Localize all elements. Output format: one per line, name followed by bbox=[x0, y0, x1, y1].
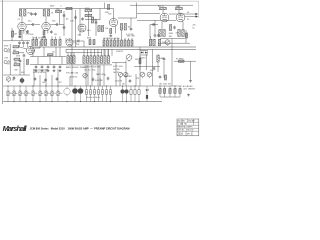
label rn lbl bbox=[135, 59, 138, 61]
capacitor C big 50u bbox=[64, 87, 70, 96]
svg-text:ISS DRN: ISS DRN bbox=[178, 121, 186, 123]
svg-text:10n: 10n bbox=[34, 93, 37, 95]
label jack lbl bbox=[4, 46, 9, 48]
wire bus mid 1 bbox=[30, 46, 196, 48]
svg-text:V5: V5 bbox=[187, 19, 189, 21]
resistor R41 bbox=[176, 6, 183, 10]
svg-text:470K: 470K bbox=[56, 9, 61, 11]
wire va5 bbox=[51, 37, 53, 40]
svg-text:0.022 68K: 0.022 68K bbox=[95, 80, 104, 82]
wire h-mid link bbox=[85, 19, 100, 21]
resistor Rc2 bbox=[86, 56, 88, 64]
svg-text:V2b: V2b bbox=[108, 14, 111, 16]
wire grid stop bbox=[19, 52, 24, 54]
label fill t3 bbox=[115, 81, 123, 83]
svg-text:0.02: 0.02 bbox=[26, 31, 30, 33]
wire vd2 bbox=[107, 38, 109, 40]
label k lbl b bbox=[54, 34, 57, 36]
label lbl2 bbox=[78, 35, 82, 37]
wire vb1 bbox=[67, 53, 69, 56]
triode V1b bbox=[42, 22, 50, 30]
wire V1b plate drop bbox=[45, 16, 47, 22]
wire cc1w bbox=[19, 45, 21, 47]
svg-text:16u: 16u bbox=[21, 93, 24, 95]
svg-text:470K: 470K bbox=[85, 8, 90, 10]
wire vconn10 bbox=[152, 60, 154, 86]
svg-text:470K: 470K bbox=[26, 33, 31, 35]
wire vconn8 bbox=[125, 60, 127, 86]
resistor R30 bbox=[120, 24, 122, 31]
resistor Ra4 bbox=[44, 39, 46, 45]
label fill t2 bbox=[95, 80, 104, 82]
wire vd3 bbox=[110, 38, 112, 40]
triode V3a bbox=[160, 13, 169, 22]
capacitor Ci7 bbox=[109, 86, 111, 102]
diode D1 bbox=[141, 51, 143, 53]
resistor R24 bbox=[101, 26, 109, 32]
resistor Rh1 bbox=[159, 86, 161, 97]
wire ps left drop2 bbox=[162, 10, 164, 13]
svg-text:V4: V4 bbox=[187, 12, 189, 14]
wire v2a up l bbox=[65, 38, 67, 42]
svg-text:0.022 470K: 0.022 470K bbox=[113, 66, 123, 68]
resistor Rc7 bbox=[104, 56, 106, 64]
potentiometer VR9 bbox=[118, 72, 122, 78]
wire ve2 bbox=[107, 49, 109, 56]
wire feed a bbox=[137, 13, 160, 15]
capacitor Cb2 bbox=[41, 65, 44, 69]
label fill t4 bbox=[122, 84, 125, 86]
svg-text:10n: 10n bbox=[66, 19, 69, 21]
label edge lbl2 bbox=[193, 28, 195, 30]
label sw labels3 bbox=[113, 72, 119, 74]
wire vconn2 bbox=[45, 69, 47, 86]
capacitor Cleft1 bbox=[19, 59, 22, 63]
svg-text:8u: 8u bbox=[104, 75, 106, 77]
wire V2b plate bbox=[113, 9, 115, 19]
capacitor Ch5 10n bbox=[32, 86, 37, 102]
wire V1a plate drop bbox=[21, 16, 23, 22]
capacitor C32 bbox=[154, 34, 157, 38]
resistor Rd2 bbox=[107, 40, 109, 46]
wire cc3w bbox=[27, 45, 29, 47]
resistor Ra1 bbox=[32, 39, 34, 45]
wire v75 bbox=[75, 10, 77, 47]
wire left col bbox=[23, 58, 25, 75]
resistor R3 bbox=[13, 50, 19, 54]
wire right low link bbox=[160, 96, 180, 98]
wire vd9 bbox=[131, 38, 133, 40]
label jack lbl2 bbox=[4, 58, 8, 60]
ground gnd Cb3 bbox=[47, 69, 50, 72]
label left lbl bbox=[15, 69, 19, 71]
capacitor Cb3 bbox=[47, 65, 50, 69]
capacitor C4 bbox=[34, 12, 37, 16]
capacitor Cn2 bbox=[159, 75, 162, 79]
wire v22 up bbox=[21, 31, 23, 41]
wire bus input row bbox=[3, 40, 30, 42]
label V1b label bbox=[52, 20, 55, 22]
wire v72 bbox=[71, 9, 73, 48]
capacitor C6 bypass bbox=[26, 30, 29, 34]
capacitor Ch3 16u bbox=[19, 86, 24, 102]
capacitor Ck3 bbox=[138, 86, 140, 102]
wire vd5 bbox=[117, 38, 119, 40]
ground right gnd bbox=[187, 94, 190, 97]
wire link right bbox=[59, 24, 64, 26]
svg-text:JCM 800 Series Model 2210: JCM 800 Series Model 2210 100W BASS AMP … bbox=[30, 127, 130, 131]
wire v136 top bbox=[136, 3, 138, 19]
label mk lbl bbox=[31, 51, 36, 53]
svg-text:FX SEND: FX SEND bbox=[176, 58, 184, 60]
capacitor C6b bypass bbox=[50, 30, 53, 34]
wire V1b out bbox=[50, 24, 56, 26]
svg-text:8u: 8u bbox=[15, 93, 17, 95]
svg-text:SHT 1: SHT 1 bbox=[187, 133, 192, 135]
potentiometer VR9b bbox=[124, 72, 128, 78]
resistor Ra6 bbox=[54, 39, 56, 45]
capacitor Cb4 bbox=[53, 65, 56, 69]
svg-text:MASTER: MASTER bbox=[124, 75, 132, 78]
ground V2b gnd bbox=[109, 34, 112, 37]
resistor R4b bbox=[14, 62, 20, 66]
svg-text:470R: 470R bbox=[169, 33, 174, 35]
wire vconn6 bbox=[99, 65, 101, 86]
resistor Rh3 bbox=[169, 86, 171, 97]
label rb lbl bbox=[87, 38, 92, 40]
resistor R47 bbox=[186, 33, 188, 38]
label eq vals2 bbox=[84, 69, 95, 71]
capacitor Ci3 bbox=[93, 86, 95, 102]
wire h into V2b bbox=[118, 17, 137, 19]
resistor Rb5 bbox=[93, 39, 95, 44]
svg-text:1K5 220K 47K: 1K5 220K 47K bbox=[159, 83, 172, 85]
label vr1 lbl bbox=[12, 80, 15, 82]
resistor Rc4 bbox=[93, 56, 95, 64]
label rn lbl2 bbox=[150, 70, 153, 72]
resistor R43 bbox=[163, 30, 165, 37]
capacitor Cj2 bbox=[124, 86, 128, 102]
wire vc8 bbox=[108, 49, 110, 56]
label k lbl bbox=[30, 34, 33, 36]
wire vc4 bbox=[94, 49, 96, 56]
wire V1a out bbox=[26, 24, 32, 26]
svg-text:22n: 22n bbox=[52, 52, 55, 54]
svg-text:4K7: 4K7 bbox=[59, 82, 62, 84]
resistor R5 220K bbox=[19, 10, 21, 17]
wire ps feed v bbox=[149, 25, 151, 39]
triode V3b bbox=[176, 13, 185, 22]
ground gnd Cb2 bbox=[41, 69, 44, 72]
arrow out a bbox=[196, 13, 199, 15]
capacitor Ci5 bbox=[101, 86, 103, 102]
label notes rt2 bbox=[183, 88, 196, 91]
resistor R22 bbox=[91, 17, 98, 23]
wire v146 down bbox=[145, 54, 147, 70]
resistor Rc3 bbox=[90, 56, 92, 64]
wire ps down bbox=[171, 39, 173, 48]
capacitor Ch2 8u bbox=[13, 86, 17, 102]
wire v140 mid bbox=[139, 56, 141, 70]
capacitor Cn1 bbox=[153, 67, 156, 71]
label rd low lbl bbox=[116, 51, 123, 53]
wire va3 bbox=[41, 37, 43, 40]
wire vk2 bbox=[59, 47, 61, 57]
label band lbl1 bbox=[66, 73, 78, 75]
wire vb3 bbox=[73, 53, 75, 56]
wire vf2 bbox=[51, 75, 53, 86]
wire vc1 bbox=[83, 49, 85, 56]
wire bus mid 1b bbox=[66, 48, 196, 50]
resistor Rf1 bbox=[149, 39, 151, 46]
wire ps join low bbox=[158, 42, 190, 44]
wire vd1 bbox=[103, 38, 105, 40]
svg-text:8u: 8u bbox=[193, 28, 195, 30]
wire ps join bbox=[160, 38, 185, 40]
capacitor Cj1 bbox=[120, 86, 124, 102]
triode V1a bbox=[18, 22, 26, 30]
svg-text:16u: 16u bbox=[47, 93, 50, 95]
svg-text:100K: 100K bbox=[176, 6, 181, 8]
wire eqdrop4 bbox=[103, 65, 105, 86]
wire v80 bbox=[79, 9, 81, 37]
wire bus mid 2 bbox=[30, 56, 66, 58]
svg-text:0.68: 0.68 bbox=[70, 21, 74, 23]
potentiometer VR3 bbox=[165, 40, 170, 46]
label lf lbl2 bbox=[59, 82, 62, 84]
wire eqdrop1 bbox=[85, 65, 87, 86]
capacitor C31 tail bbox=[173, 26, 176, 30]
resistor Rmid bus bbox=[47, 54, 53, 56]
ground gnd Cb5 bbox=[59, 69, 62, 72]
capacitor Ch6 8u bbox=[39, 86, 43, 102]
capacitor Ci4 bbox=[97, 86, 99, 102]
capacitor C2 25u bbox=[20, 77, 24, 84]
label val75 bbox=[70, 21, 74, 23]
wire vc7 bbox=[104, 49, 106, 56]
resistor Rd4 bbox=[114, 40, 116, 46]
label val131 bbox=[126, 34, 134, 36]
capacitor C30 bbox=[152, 23, 156, 26]
title block bbox=[177, 119, 199, 136]
resistor Rn2 bbox=[165, 75, 167, 80]
junction dots bus2 bbox=[14, 101, 140, 102]
wire eqdrop3 bbox=[97, 65, 99, 86]
label tail lbl bbox=[176, 33, 180, 35]
wire v64 bbox=[63, 11, 65, 36]
resistor R25 bbox=[108, 4, 110, 9]
wire ps feed bbox=[150, 24, 158, 26]
resistor Rd3 bbox=[110, 40, 112, 46]
wire c13 on bbox=[81, 40, 85, 42]
wire V2b k drop bbox=[114, 27, 116, 34]
label band lbl2 bbox=[96, 73, 105, 76]
triode V1a in bbox=[27, 47, 35, 55]
capacitor Cf1 bbox=[34, 77, 37, 81]
resistor Rd6 bbox=[121, 40, 123, 46]
svg-text:0.1: 0.1 bbox=[53, 93, 55, 95]
wire vd7 bbox=[124, 38, 126, 40]
label row a vals bbox=[33, 37, 46, 39]
wire vconn5 bbox=[87, 65, 89, 86]
resistor Rd1 bbox=[103, 40, 105, 46]
resistor Rf2 bbox=[153, 39, 155, 46]
svg-text:47p: 47p bbox=[33, 14, 36, 16]
label eq labels bbox=[66, 66, 87, 69]
capacitor Cm1 bbox=[92, 78, 95, 82]
resistor R20 bbox=[85, 8, 92, 11]
wire fx h bbox=[174, 60, 196, 62]
resistor Rb4 bbox=[89, 39, 91, 44]
resistor R44 bbox=[178, 30, 180, 37]
label vr45 lbl bbox=[136, 78, 140, 80]
svg-text:470K 22n 560K: 470K 22n 560K bbox=[33, 37, 46, 39]
wire vj5 bbox=[55, 47, 57, 57]
resistor R1 1M bbox=[12, 31, 18, 37]
resistor R32 bbox=[110, 28, 112, 33]
svg-text:32u: 32u bbox=[9, 93, 12, 95]
wire v88 bbox=[87, 12, 89, 36]
wire va1 bbox=[32, 37, 34, 40]
wire vconn11 bbox=[171, 47, 173, 86]
resistor Rn1 bbox=[139, 58, 141, 63]
label values row A bbox=[33, 69, 49, 71]
svg-text:1 JCM BK: 1 JCM BK bbox=[178, 124, 188, 126]
wire v96 down bbox=[95, 20, 97, 37]
label sw labels bbox=[113, 66, 123, 68]
capacitor Ch8 0.1 bbox=[51, 86, 56, 102]
capacitor Cf2 bbox=[44, 78, 47, 82]
label dio lbl bbox=[140, 58, 146, 60]
wire cc2w bbox=[23, 45, 25, 47]
svg-text:C2: C2 bbox=[18, 19, 20, 21]
wire bus jog v bbox=[65, 49, 67, 52]
label sw labels2 bbox=[113, 69, 120, 71]
diode D3 bbox=[146, 89, 148, 91]
wire vconn9 bbox=[139, 56, 141, 86]
wire vm2 bbox=[99, 78, 101, 86]
input jack J1 high bbox=[4, 48, 10, 52]
wire vj1 bbox=[37, 57, 39, 65]
wire ve1 bbox=[103, 49, 105, 56]
capacitor Ch4 32u bbox=[25, 86, 30, 102]
capacitor Cc2 bbox=[22, 41, 25, 45]
label ci vals bbox=[86, 97, 100, 99]
svg-text:22n: 22n bbox=[18, 37, 21, 39]
triode V2a mid bbox=[66, 39, 73, 46]
svg-text:MARSHALL AMPS: MARSHALL AMPS bbox=[178, 126, 194, 129]
potentiometer VR6 bbox=[72, 86, 78, 102]
wire fx v bbox=[190, 61, 192, 79]
capacitor Ch9 32u bbox=[57, 86, 62, 102]
label B+ label2 bbox=[61, 6, 63, 8]
capacitor C1 bbox=[23, 54, 26, 58]
Marshall logo bbox=[3, 124, 28, 133]
resistor R45 bbox=[182, 30, 184, 37]
capacitor Cb5 bbox=[59, 65, 62, 69]
label B+ label bbox=[50, 6, 55, 8]
resistor Rd7 bbox=[124, 40, 126, 46]
ground gnd Cb1 bbox=[35, 69, 38, 72]
svg-text:2210: 2210 bbox=[178, 133, 184, 136]
wire vf up bbox=[150, 37, 152, 40]
capacitor Ci2 bbox=[89, 86, 91, 102]
wire bus mid 1c bbox=[66, 52, 102, 54]
label row d vals bbox=[103, 38, 120, 40]
resistor Rc1 bbox=[83, 56, 85, 64]
capacitor C9b bbox=[74, 16, 77, 20]
wire vm1 bbox=[69, 76, 71, 86]
resistor R40 bbox=[158, 6, 166, 10]
wire v158 low bbox=[157, 62, 159, 72]
capacitor Cm2 bbox=[107, 77, 110, 81]
label lf lbl bbox=[42, 82, 46, 84]
resistor R31 bbox=[124, 24, 132, 31]
svg-text:2K2: 2K2 bbox=[54, 34, 57, 36]
capacitor C13 bbox=[77, 40, 81, 43]
wire feed b bbox=[137, 20, 176, 22]
wire vm3 bbox=[119, 77, 121, 86]
wire vj2 bbox=[49, 57, 51, 65]
junction dots bus bbox=[8, 86, 176, 87]
resistor R13 bbox=[56, 9, 62, 13]
wire V1a k bbox=[23, 31, 25, 34]
potentiometer VR7 bbox=[78, 86, 84, 102]
svg-text:2K2: 2K2 bbox=[27, 13, 30, 15]
wire v131 bbox=[130, 18, 132, 27]
capacitor Cf3 bbox=[56, 77, 59, 81]
resistor R7 cathode bbox=[19, 31, 21, 36]
svg-text:LOW: LOW bbox=[4, 58, 8, 60]
wire vconn1 bbox=[33, 69, 35, 86]
resistor Ra2 bbox=[35, 39, 37, 45]
wire drop R13 bbox=[59, 13, 61, 25]
label v2b lbl bbox=[108, 14, 111, 16]
label left lbl2 bbox=[21, 72, 24, 74]
wire V1b k bbox=[47, 31, 49, 34]
resistor Rd5 bbox=[117, 40, 119, 46]
capacitor Ci1 bbox=[85, 86, 87, 102]
potentiometer VR4 bbox=[140, 72, 145, 78]
svg-text:0.68: 0.68 bbox=[30, 34, 33, 36]
wire vm4 bbox=[135, 74, 137, 86]
capacitor Cb1 bbox=[35, 65, 38, 69]
resistor R14 bbox=[66, 7, 72, 9]
wire v12 up bbox=[11, 28, 13, 41]
svg-text:0.02: 0.02 bbox=[76, 44, 79, 46]
label values row A2 bbox=[33, 72, 46, 74]
svg-text:3V9: 3V9 bbox=[135, 59, 138, 61]
label in lbl bbox=[26, 31, 30, 33]
wire v2a out bbox=[73, 40, 78, 42]
svg-text:10n 10n 8u 10n 8u: 10n 10n 8u 10n 8u bbox=[86, 97, 100, 99]
potentiometer VR mid bbox=[126, 55, 132, 62]
resistor R21 bbox=[85, 14, 92, 16]
wire v164 low bbox=[163, 61, 165, 78]
svg-text:68K 470R: 68K 470R bbox=[127, 36, 136, 38]
wire lower h bbox=[3, 74, 30, 76]
wire c5 on bbox=[35, 24, 40, 26]
label val a1 bbox=[18, 19, 20, 21]
resistor Rg1 bbox=[157, 55, 165, 62]
capacitor Cc3 bbox=[26, 41, 29, 45]
capacitor C8 bbox=[63, 14, 66, 18]
wire HT rail A bbox=[19, 8, 114, 10]
wire ps left drop bbox=[162, 5, 164, 7]
wire ps right drop2 bbox=[178, 10, 180, 13]
resistor R12 cathode bbox=[43, 31, 45, 36]
resistor Rd9 bbox=[131, 40, 133, 46]
